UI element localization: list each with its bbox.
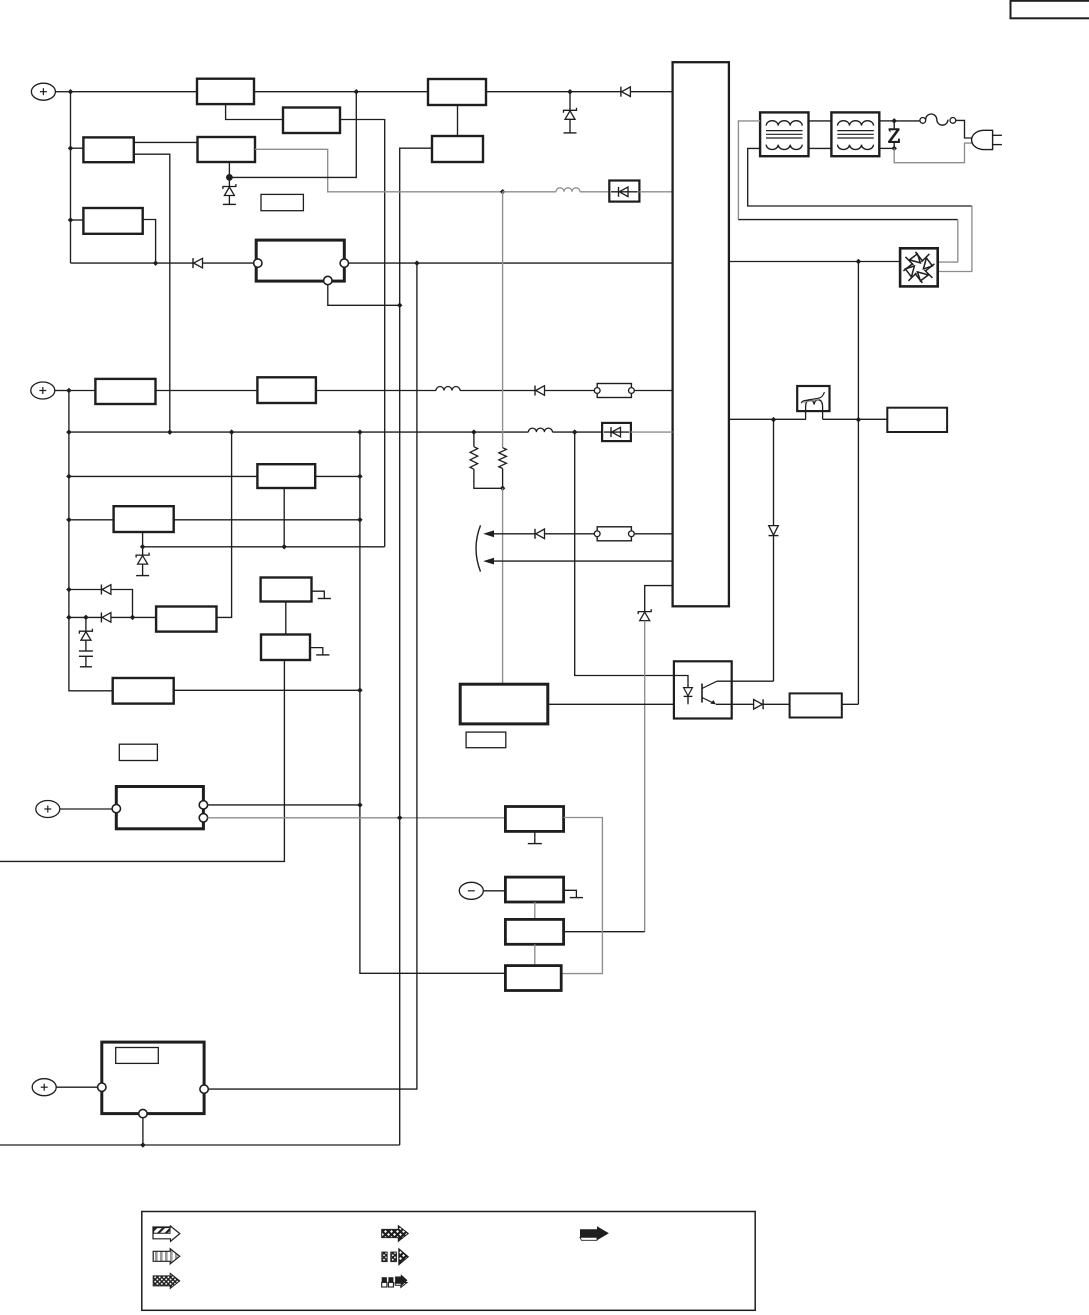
wire row 547 <box>143 546 385 548</box>
block U12 <box>156 607 216 632</box>
block U3 <box>283 108 340 134</box>
T1 core <box>766 131 803 138</box>
bridge rectifier BR1 <box>900 248 938 286</box>
block U9 <box>257 377 316 403</box>
wire D2 to converter <box>639 191 672 193</box>
wire D8 to CN2 <box>545 533 595 535</box>
node N7 <box>414 260 420 266</box>
wire fuse to plug top <box>956 120 972 138</box>
main converter IC U0 <box>673 62 729 606</box>
node N31 <box>771 417 777 423</box>
node N20 <box>357 474 363 480</box>
wire D4 to CN1 <box>545 390 595 392</box>
wire D7 to U12 <box>111 616 156 618</box>
wire E4 to U20 <box>483 890 505 892</box>
wire U7 to node <box>143 220 156 264</box>
node N32 <box>856 417 862 423</box>
connector CN2 <box>594 527 634 541</box>
wire E2 row to U8 <box>69 390 96 392</box>
U14 output stub <box>312 591 331 598</box>
wire U3 to busA <box>340 120 385 547</box>
node rail1-a <box>68 145 74 151</box>
block U6 <box>198 137 256 162</box>
wire U13 to busE <box>174 689 360 691</box>
wire U11 to busE <box>174 519 360 521</box>
block U10 <box>257 464 315 488</box>
wire rail1 to U5 <box>71 147 84 149</box>
legend squares+solid head <box>382 1274 408 1287</box>
node N3 <box>140 1142 146 1148</box>
bus F vertical <box>575 432 674 675</box>
wire E5 to BT2 <box>56 1086 97 1088</box>
wire rail2 to U11 <box>69 519 114 521</box>
wire U10 to busE <box>315 475 360 477</box>
wire U2 to U4 <box>457 105 459 136</box>
diode module D2 <box>609 181 639 202</box>
terminal BT2-2 <box>200 1085 208 1093</box>
line filter T1 <box>760 112 808 156</box>
node N10 <box>891 146 897 152</box>
wire U14 to U15 <box>285 602 287 635</box>
gray sense line lower <box>502 488 504 684</box>
node N24 <box>357 802 363 808</box>
label box LB4 <box>119 744 157 760</box>
wire opto emitter to D11 <box>716 703 754 705</box>
node N14 <box>229 429 235 435</box>
wire opto collector <box>717 680 774 682</box>
DC source terminal (+) E2 <box>31 382 55 399</box>
ground G1 <box>528 831 542 843</box>
node N22 <box>357 517 363 523</box>
wire D3 to relay unit <box>203 262 254 264</box>
wire U12 to rail row <box>217 432 232 617</box>
zener ZD4 with capacitor C1 <box>79 617 93 666</box>
wire converter to bridge <box>729 261 900 263</box>
node N28 <box>66 615 72 621</box>
legend squares+checker head <box>382 1249 408 1265</box>
gray sense line upper <box>502 192 504 448</box>
wire CN2 to converter <box>634 533 672 535</box>
bus I vertical <box>773 420 775 682</box>
wire T1-T2 top <box>809 120 832 122</box>
block U21 <box>505 919 563 944</box>
diode D10 <box>769 526 779 536</box>
arrow head A1 <box>483 530 494 537</box>
wire bottom return <box>0 1144 400 1146</box>
DC source terminal (+) E5 <box>32 1079 56 1096</box>
block U14 <box>261 578 312 602</box>
diode D1 <box>621 87 631 97</box>
legend arrow checker <box>382 1226 409 1242</box>
wire converter to S1 <box>729 418 806 420</box>
wire top bus segment D <box>630 91 672 93</box>
wire N9 to fuse <box>894 120 920 122</box>
block U20 <box>505 877 563 902</box>
node rail1-top <box>68 89 74 95</box>
wire BT2 right to busC <box>208 263 417 1089</box>
wire E2 to rail2 <box>55 390 69 392</box>
fuse F1 <box>920 114 956 125</box>
wire U6 zener tap <box>228 162 230 177</box>
wire K1-3 to busB <box>328 285 400 306</box>
diode D8 <box>535 529 545 539</box>
wire U10 bottom tap <box>283 488 285 547</box>
wire U17 to busH <box>842 703 859 705</box>
wire rail1 vertical <box>70 92 72 263</box>
node N4 <box>500 189 506 195</box>
wire E3 to BT1 <box>60 808 112 810</box>
block U1 <box>197 79 254 104</box>
wire T2 to Z top <box>879 120 894 122</box>
wire BT1 low output gray <box>208 817 506 819</box>
node N11 <box>856 259 862 265</box>
wire A1 to D8 <box>494 533 536 535</box>
node N15 <box>357 429 363 435</box>
wire T2 to Z bottom <box>879 147 894 149</box>
DC source terminal (-) E4 <box>459 882 483 899</box>
wire BT1 top output <box>208 804 360 806</box>
wire U6 gray feed <box>255 149 503 192</box>
wire top bus segment C <box>486 91 621 93</box>
label box LB1 <box>261 194 303 210</box>
wire T1 bottom to bridge part2 <box>938 206 972 272</box>
block U4 <box>432 136 483 162</box>
wire L3 to D5 box <box>552 431 602 433</box>
switch unit K1 <box>256 240 344 281</box>
wire rail2 to D7 <box>69 616 102 618</box>
wire N5 to N1 <box>229 92 356 178</box>
legend arrow solid <box>580 1226 609 1240</box>
node N1 <box>354 89 360 95</box>
wire U1 to U3 <box>226 104 283 119</box>
wire D11 to U17 <box>763 703 790 705</box>
node N6 <box>153 260 159 266</box>
wire K1 to converter <box>349 262 673 264</box>
node N9 <box>891 118 897 124</box>
AC plug P1 <box>972 130 1002 149</box>
regulator block U16 <box>460 684 548 724</box>
arrow head A2 <box>483 558 494 565</box>
wire L1 to D2 box <box>580 191 609 193</box>
node N21 <box>66 517 72 523</box>
wire U19 right loop gray <box>561 818 602 974</box>
bus E vertical <box>360 432 506 973</box>
wire rail2 vertical <box>69 391 113 691</box>
wire U20 to U21 <box>534 902 536 919</box>
node N23 <box>357 688 363 694</box>
terminal BT1-1 <box>112 804 120 812</box>
inductor L2 <box>436 387 460 391</box>
legend arrow hatch <box>153 1226 180 1241</box>
terminal BT2-1 <box>98 1083 106 1091</box>
node N25 <box>140 544 146 550</box>
wire U21 to U22 <box>534 944 536 965</box>
wire rail2 to U10 <box>69 475 258 477</box>
wire D5 to converter <box>631 431 673 433</box>
terminal K1-2 <box>340 259 348 267</box>
block U8 <box>95 379 155 404</box>
wire U4 to busB <box>400 148 432 1145</box>
wire BT2 bottom <box>142 1118 144 1145</box>
node N12 <box>66 429 72 435</box>
U15 output stub <box>310 648 329 655</box>
wire rail row 432 left <box>69 431 529 433</box>
resistor R2 <box>499 448 507 489</box>
zener diode ZD1 <box>223 177 236 204</box>
wire CN1 to converter <box>634 390 672 392</box>
diode module D5 <box>602 423 631 441</box>
diode D4 <box>535 386 545 396</box>
legend arrow dots <box>153 1273 180 1288</box>
wire plug bottom return <box>894 143 972 163</box>
diode D3 <box>193 258 203 268</box>
block U13 <box>113 678 174 704</box>
wire T1-T2 bottom <box>809 147 832 149</box>
node N33 <box>397 815 403 821</box>
wire E1 to rail <box>55 91 70 93</box>
node N16 <box>471 429 477 435</box>
legend arrow vbars <box>153 1249 180 1264</box>
wire L2 to D4 <box>460 390 535 392</box>
block U15 <box>261 635 310 661</box>
thermal protector S1 <box>797 386 829 419</box>
U20 output stub <box>564 890 583 897</box>
diode D7 <box>101 612 111 622</box>
wire U5 to U6 <box>134 141 198 143</box>
battery unit BT1 <box>116 787 203 829</box>
block U22 <box>505 966 561 991</box>
node N29 <box>83 615 89 621</box>
coupling arc <box>476 525 481 571</box>
wire converter tap to D9 <box>645 586 673 612</box>
zener diode ZD2 <box>564 92 577 133</box>
wire rail1 to U7 <box>71 219 84 221</box>
terminal K1-1 <box>254 259 262 267</box>
bus H vertical <box>857 262 859 705</box>
node N13 <box>167 429 173 435</box>
wire U8 to U9 <box>156 390 258 392</box>
node rail1-b <box>68 217 74 223</box>
block U17 <box>790 693 842 717</box>
terminal K1-3 <box>324 276 332 284</box>
wire S1 to U18 <box>823 418 888 420</box>
diode D6 <box>101 585 111 595</box>
block U2 <box>428 79 486 105</box>
block U18 <box>887 408 947 432</box>
wire T1 top to bridge part3 <box>938 220 958 263</box>
wire U16 to opto <box>548 703 674 705</box>
label box LB3 <box>116 1048 159 1064</box>
node N5 <box>226 174 233 181</box>
connector CN1 <box>594 384 634 398</box>
terminal BT1-2 <box>199 801 207 809</box>
inductor L3 <box>528 428 552 432</box>
wire rail2 to D6 <box>69 589 102 591</box>
T1 secondary winding <box>766 145 802 150</box>
diode D11 <box>754 699 764 709</box>
T2 secondary winding <box>838 145 874 150</box>
wire U5 branch down <box>134 154 170 432</box>
gray bus G <box>564 621 645 932</box>
T1 primary winding <box>766 121 802 126</box>
wire gray feed segment <box>503 191 556 193</box>
wire U15 down-left <box>0 660 284 861</box>
DC source terminal (+) E1 <box>31 83 55 100</box>
wire top bus segment A <box>71 91 198 93</box>
wire D6 elbow <box>111 590 133 618</box>
wire A2 to converter <box>494 560 673 562</box>
T2 primary winding <box>838 121 874 126</box>
wire U11 zener tap <box>142 532 144 547</box>
zener diode D9 <box>638 609 651 621</box>
node rail2-top <box>66 388 72 394</box>
wire U9 to L2 <box>316 390 436 392</box>
terminal BT1-3 <box>199 814 207 822</box>
node N30 <box>130 615 136 621</box>
block U11 <box>114 506 174 532</box>
optocoupler PC1 <box>674 661 732 718</box>
wire top bus segment B <box>254 91 428 93</box>
block U19 <box>505 807 563 832</box>
wire T1 top to bridge part1 <box>738 121 760 220</box>
legend box <box>142 1212 755 1311</box>
zener diode ZD3 <box>136 547 149 576</box>
wire T1 top to bridge part2 <box>738 219 957 221</box>
page number box <box>1011 1 1089 19</box>
label box LB2 <box>466 732 506 748</box>
block U7 <box>83 208 142 234</box>
wire rail1 bottom to D3 <box>71 262 194 264</box>
wire T1 bottom to bridge part1 <box>748 148 972 206</box>
T2 core <box>837 131 874 138</box>
node N18 <box>500 486 506 492</box>
battery unit BT2 <box>102 1042 204 1114</box>
DC source terminal (+) E3 <box>36 801 60 818</box>
node N17 <box>572 429 578 435</box>
node N27 <box>66 587 72 593</box>
block U5 <box>83 137 133 162</box>
terminal BT2-3 <box>139 1109 147 1117</box>
surge absorber Z1 <box>888 121 900 148</box>
resistor R1 <box>470 432 503 488</box>
node N26 <box>281 544 287 550</box>
node N19 <box>66 474 72 480</box>
inductor L1 <box>556 188 580 192</box>
line filter T2 <box>831 112 879 156</box>
node N8 <box>397 303 403 309</box>
node N2 <box>567 89 573 95</box>
